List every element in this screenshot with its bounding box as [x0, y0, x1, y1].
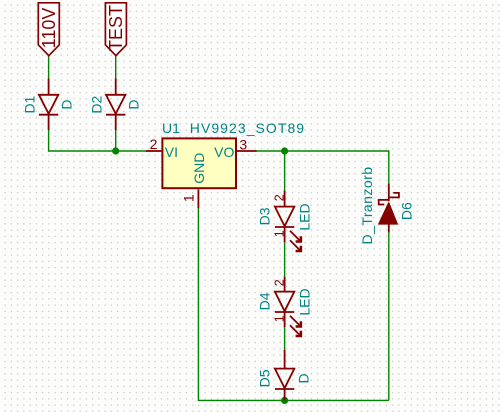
svg-text:U1: U1 [162, 120, 180, 136]
svg-text:D: D [59, 100, 75, 110]
svg-text:2: 2 [150, 136, 158, 152]
svg-text:1: 1 [272, 315, 286, 322]
svg-text:D: D [126, 100, 142, 110]
svg-text:LED: LED [296, 288, 312, 315]
svg-text:110V: 110V [39, 8, 59, 49]
svg-text:D6: D6 [398, 202, 414, 220]
svg-text:D1: D1 [22, 95, 38, 113]
svg-text:1: 1 [272, 230, 286, 237]
svg-text:2: 2 [272, 194, 286, 201]
svg-text:D: D [296, 373, 312, 383]
svg-text:VI: VI [165, 144, 178, 160]
svg-text:1: 1 [181, 194, 197, 202]
svg-text:D5: D5 [257, 369, 273, 387]
svg-text:D2: D2 [89, 95, 105, 113]
svg-text:D4: D4 [256, 292, 272, 310]
svg-text:GND: GND [191, 153, 207, 184]
svg-text:VO: VO [214, 144, 234, 160]
svg-text:D3: D3 [256, 207, 272, 225]
svg-text:3: 3 [239, 137, 247, 153]
svg-text:2: 2 [272, 279, 286, 286]
svg-text:LED: LED [296, 203, 312, 230]
svg-text:HV9923_SOT89: HV9923_SOT89 [190, 120, 305, 136]
svg-text:TEST: TEST [106, 5, 126, 51]
svg-text:D_Tranzorb: D_Tranzorb [359, 167, 375, 245]
